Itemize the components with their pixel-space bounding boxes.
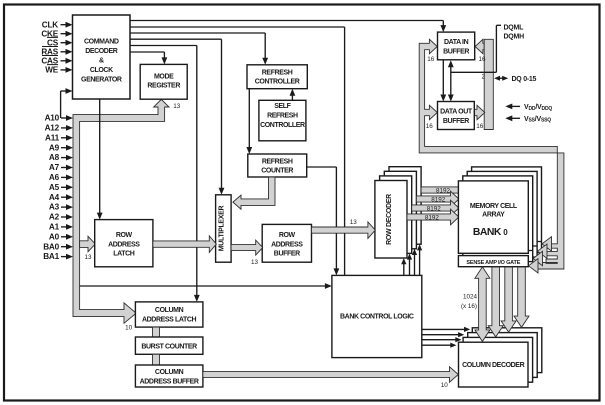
svg-text:16: 16 bbox=[426, 123, 434, 130]
wire: decoder output to COLUMN ADDRESS LATCH bbox=[130, 45, 197, 47]
svg-text:8192: 8192 bbox=[436, 187, 451, 194]
block MEMORY CELL ARRAY BANK 0 bbox=[458, 181, 528, 253]
block ROW ADDRESS LATCH bbox=[95, 220, 153, 267]
svg-text:10: 10 bbox=[441, 382, 449, 389]
block ROW DECODER stack layer 2 bbox=[380, 176, 412, 254]
wire BANK CONTROL LOGIC up to ROW DECODER layer 3 bbox=[414, 252, 416, 275]
svg-text:COUNTER: COUNTER bbox=[261, 168, 293, 175]
block BURST COUNTER bbox=[135, 337, 203, 354]
svg-text:2: 2 bbox=[482, 73, 486, 80]
wire DQM control between buffers (double arrow) bbox=[450, 64, 452, 99]
svg-text:SENSE AMP I/O GATE: SENSE AMP I/O GATE bbox=[466, 260, 520, 266]
svg-text:A4: A4 bbox=[49, 193, 60, 202]
svg-text:A7: A7 bbox=[49, 163, 60, 172]
svg-text:ADDRESS: ADDRESS bbox=[108, 241, 140, 248]
svg-text:MODE: MODE bbox=[154, 73, 174, 80]
bus SENSE AMP to COLUMN DECODER layer 3 bbox=[501, 267, 516, 332]
bus 8192 from ROW DECODER layer 1 to MEMORY CELL ARRAY layer 1 bbox=[407, 209, 459, 225]
svg-text:CLK: CLK bbox=[42, 20, 59, 29]
svg-text:BA0: BA0 bbox=[43, 242, 59, 251]
svg-text:8192: 8192 bbox=[425, 214, 440, 221]
svg-text:BUFFER: BUFFER bbox=[274, 251, 300, 258]
svg-text:ROW: ROW bbox=[116, 232, 133, 239]
block COLUMN DECODER stack layer 2 bbox=[463, 337, 532, 382]
svg-text:BUFFER: BUFFER bbox=[443, 118, 469, 125]
bus 8192 from ROW DECODER layer 2 to MEMORY CELL ARRAY layer 2 bbox=[412, 200, 459, 216]
bus REFRESH COUNTER to MULTIPLEXER (gray elbow arrow) bbox=[233, 177, 275, 209]
wire: decoder output to REFRESH CONTROLLER bbox=[130, 32, 265, 34]
svg-text:CONTROLLER: CONTROLLER bbox=[255, 79, 300, 86]
wire BANK CONTROL LOGIC to COLUMN DECODER layer 2 bbox=[422, 339, 459, 341]
svg-text:GENERATOR: GENERATOR bbox=[81, 77, 122, 84]
svg-text:REFRESH: REFRESH bbox=[262, 69, 293, 76]
block ROW DECODER stack layer 4 bbox=[389, 167, 421, 245]
svg-text:ADDRESS: ADDRESS bbox=[271, 241, 303, 248]
svg-text:A2: A2 bbox=[49, 213, 60, 222]
svg-text:BANK CONTROL LOGIC: BANK CONTROL LOGIC bbox=[340, 313, 414, 320]
wire BANK CONTROL LOGIC up to ROW DECODER layer 2 bbox=[409, 257, 411, 276]
svg-text:COLUMN: COLUMN bbox=[155, 307, 184, 314]
block DATA IN BUFFER bbox=[438, 32, 475, 60]
svg-text:DATA OUT: DATA OUT bbox=[440, 109, 473, 116]
svg-text:13: 13 bbox=[84, 254, 92, 261]
wire SELF REFRESH CONTROLLER up to REFRESH CONTROLLER bbox=[291, 92, 293, 100]
svg-text:A12: A12 bbox=[45, 124, 60, 133]
wire address bus to BANK CONTROL LOGIC bbox=[80, 285, 328, 287]
svg-text:8192: 8192 bbox=[427, 205, 442, 212]
bus SENSE AMP to COLUMN DECODER layer 2 bbox=[488, 267, 503, 337]
block MULTIPLEXER bbox=[216, 195, 232, 262]
svg-text:10: 10 bbox=[125, 324, 133, 331]
block MODE REGISTER bbox=[140, 64, 187, 99]
svg-text:ROW DECODER: ROW DECODER bbox=[386, 194, 393, 245]
svg-text:COLUMN: COLUMN bbox=[155, 369, 184, 376]
svg-text:DQML: DQML bbox=[504, 25, 525, 32]
bus (gray) read/write data path left of data buffers down to memory bbox=[419, 39, 564, 269]
svg-text:REGISTER: REGISTER bbox=[147, 83, 180, 90]
svg-text:MULTIPLEXER: MULTIPLEXER bbox=[218, 205, 225, 251]
svg-text:A3: A3 bbox=[49, 203, 60, 212]
svg-text:8192: 8192 bbox=[431, 196, 446, 203]
svg-text:&: & bbox=[99, 58, 104, 65]
wire: decoder output to MODE REGISTER bbox=[130, 51, 164, 53]
svg-text:BUFFER: BUFFER bbox=[443, 49, 469, 56]
wire REFRESH CONTROLLER down to REFRESH COUNTER bbox=[248, 89, 250, 151]
block ROW DECODER stack layer 3 bbox=[384, 171, 416, 249]
block SELF REFRESH CONTROLLER bbox=[259, 100, 306, 141]
bus SENSE AMP to COLUMN DECODER layer 4 bbox=[514, 267, 529, 327]
bus arrowheads into stacked SENSE AMP layers bbox=[542, 237, 552, 251]
block COMMAND DECODER & CLOCK GENERATOR bbox=[73, 15, 131, 99]
block REFRESH COUNTER bbox=[248, 154, 307, 177]
bus 1024 (x16) SENSE AMP to COLUMN DECODER bank 0 (double arrow) bbox=[475, 267, 490, 342]
block MEMORY CELL ARRAY stack layer 2 bbox=[463, 176, 533, 262]
block ROW ADDRESS BUFFER bbox=[262, 224, 311, 262]
svg-text:MEMORY CELL: MEMORY CELL bbox=[470, 203, 518, 210]
wire DQML/DQMH input bbox=[451, 71, 497, 73]
wire: decoder output to MULTIPLEXER bbox=[130, 38, 222, 40]
bus ROW ADDRESS LATCH to MULTIPLEXER bbox=[153, 236, 216, 253]
svg-text:VDD/VDDQ: VDD/VDDQ bbox=[524, 104, 552, 112]
svg-text:COMMAND: COMMAND bbox=[84, 39, 119, 46]
block MEMORY CELL ARRAY stack layer 3 bbox=[467, 171, 537, 257]
svg-text:ROW: ROW bbox=[279, 232, 296, 239]
bus 10 COLUMN ADDRESS BUFFER to COLUMN DECODER bbox=[203, 367, 458, 382]
block COLUMN DECODER stack layer 4 bbox=[472, 328, 542, 373]
wire DATA IN BUFFER down to DATA OUT BUFFER bbox=[442, 60, 444, 98]
svg-text:REFRESH: REFRESH bbox=[262, 158, 293, 165]
svg-text:13: 13 bbox=[350, 219, 358, 226]
block COLUMN ADDRESS LATCH bbox=[135, 302, 203, 327]
svg-text:LATCH: LATCH bbox=[113, 251, 135, 258]
wire BANK CONTROL LOGIC up to ROW DECODER layer 4 bbox=[419, 248, 421, 276]
svg-text:A0: A0 bbox=[49, 232, 60, 241]
wire: decoder bottom to ROW ADDRESS LATCH bbox=[99, 99, 101, 216]
gray connector COLUMN ADDRESS LATCH to BURST COUNTER bbox=[153, 327, 160, 337]
svg-text:16: 16 bbox=[427, 56, 435, 63]
VDD/VDDQ power pin bbox=[509, 105, 521, 107]
svg-text:A10: A10 bbox=[45, 114, 60, 123]
svg-text:DQMH: DQMH bbox=[504, 34, 525, 41]
wire: decoder output to BANK CONTROL LOGIC bbox=[130, 26, 345, 28]
svg-text:COLUMN DECODER: COLUMN DECODER bbox=[462, 362, 524, 369]
svg-text:ADDRESS LATCH: ADDRESS LATCH bbox=[142, 316, 197, 323]
block BANK CONTROL LOGIC bbox=[332, 275, 422, 357]
svg-text:ADDRESS BUFFER: ADDRESS BUFFER bbox=[140, 378, 199, 385]
svg-text:DATA IN: DATA IN bbox=[444, 39, 469, 46]
address bus (gray) with arrow to MODE REGISTER and arrow to COLUMN ADDRESS LATCH bbox=[73, 99, 169, 323]
block SENSE AMP I/O GATE bbox=[458, 256, 528, 267]
svg-text:16: 16 bbox=[478, 56, 486, 63]
svg-text:VSS/VSSQ: VSS/VSSQ bbox=[524, 116, 551, 124]
bus DATA OUT BUFFER output arrow to DQ bus bbox=[474, 105, 485, 119]
svg-text:WE: WE bbox=[45, 66, 59, 75]
svg-text:(x 16): (x 16) bbox=[461, 303, 477, 310]
svg-text:CLOCK: CLOCK bbox=[90, 67, 113, 74]
bus 8192 from ROW DECODER layer 4 to MEMORY CELL ARRAY layer 4 bbox=[421, 187, 459, 193]
DQ 0-15 bidirectional pin bbox=[497, 77, 505, 79]
svg-text:DQ 0-15: DQ 0-15 bbox=[512, 76, 537, 83]
block MEMORY CELL ARRAY stack layer 4 bbox=[472, 167, 542, 253]
svg-text:A8: A8 bbox=[49, 153, 60, 162]
svg-text:A5: A5 bbox=[49, 183, 60, 192]
svg-text:1024: 1024 bbox=[463, 293, 478, 300]
svg-text:CS: CS bbox=[47, 38, 59, 47]
block COLUMN ADDRESS BUFFER bbox=[135, 365, 203, 387]
svg-text:CONTROLLER: CONTROLLER bbox=[260, 122, 305, 129]
svg-text:A6: A6 bbox=[49, 173, 60, 182]
block COLUMN DECODER (bank 0) bbox=[459, 342, 529, 387]
wire BANK CONTROL LOGIC to COLUMN DECODER layer 4 bbox=[422, 328, 467, 330]
wire BANK CONTROL LOGIC up to ROW DECODER layer 1 bbox=[403, 261, 405, 275]
block ROW DECODER (bank 0) bbox=[375, 181, 407, 259]
svg-text:13: 13 bbox=[251, 259, 259, 266]
svg-text:CAS: CAS bbox=[41, 56, 58, 65]
svg-text:BANK 0: BANK 0 bbox=[473, 227, 508, 238]
svg-text:A11: A11 bbox=[45, 133, 60, 142]
wire A10 branch up into COMMAND DECODER bbox=[60, 91, 62, 118]
VSS/VSSQ ground pin bbox=[509, 117, 521, 119]
wire REFRESH COUNTER to BANK CONTROL LOGIC bbox=[307, 166, 337, 168]
svg-text:16: 16 bbox=[476, 123, 484, 130]
svg-text:SELF: SELF bbox=[274, 103, 291, 110]
block COLUMN DECODER stack layer 3 bbox=[468, 333, 538, 378]
svg-text:BA1: BA1 bbox=[43, 252, 59, 261]
address bus arrow into ROW ADDRESS LATCH bbox=[80, 236, 96, 251]
svg-text:BURST COUNTER: BURST COUNTER bbox=[141, 343, 197, 350]
svg-text:DECODER: DECODER bbox=[85, 48, 118, 55]
wire: decoder output to DATA IN BUFFER bbox=[130, 20, 443, 22]
bus MULTIPLEXER to ROW ADDRESS BUFFER bbox=[231, 240, 263, 255]
block DATA OUT BUFFER bbox=[438, 102, 475, 130]
svg-text:A1: A1 bbox=[49, 223, 60, 232]
wire BANK CONTROL LOGIC to COLUMN DECODER layer 3 bbox=[422, 334, 461, 336]
bus 13 ROW ADDRESS BUFFER to ROW DECODER bbox=[312, 222, 376, 239]
block REFRESH CONTROLLER bbox=[247, 65, 307, 89]
svg-text:REFRESH: REFRESH bbox=[267, 113, 298, 120]
svg-text:A9: A9 bbox=[49, 143, 60, 152]
bus (gray) DQ pad bus right of data buffers bbox=[475, 39, 484, 53]
gray connector BURST COUNTER to COLUMN ADDRESS BUFFER bbox=[153, 354, 160, 365]
svg-text:13: 13 bbox=[173, 103, 181, 110]
svg-text:ARRAY: ARRAY bbox=[482, 212, 505, 219]
wire BANK CONTROL LOGIC to COLUMN DECODER layer 1 bbox=[422, 344, 454, 346]
bus 8192 from ROW DECODER layer 3 to MEMORY CELL ARRAY layer 3 bbox=[416, 191, 459, 207]
